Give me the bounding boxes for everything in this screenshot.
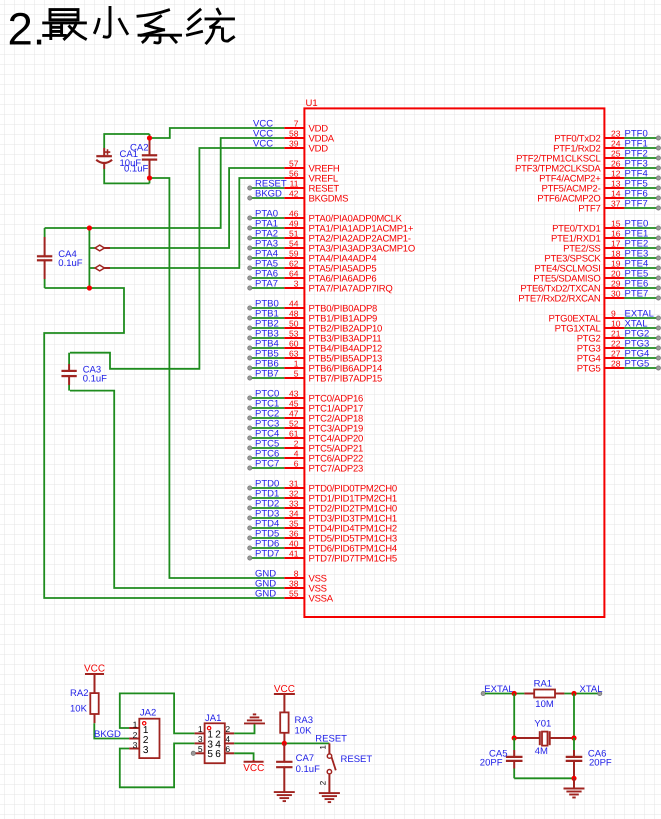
svg-text:28: 28	[611, 358, 621, 368]
svg-text:14: 14	[611, 188, 621, 198]
svg-text:VDD: VDD	[309, 144, 329, 155]
pin 27 PTG4 (right)	[577, 348, 661, 364]
pin 22 PTG3 (right)	[577, 338, 661, 354]
diamond tap VREFH	[95, 245, 110, 251]
svg-text:11: 11	[290, 178, 299, 188]
pin 51 PTA2/PIA2ADP2ACMP1- (left)	[248, 228, 411, 244]
svg-text:54: 54	[289, 238, 299, 248]
pin 2 JA1	[225, 724, 234, 734]
svg-text:23: 23	[611, 128, 621, 138]
power VCC symbol above RA3	[274, 684, 295, 712]
svg-text:XTAL: XTAL	[580, 684, 603, 695]
svg-text:CA2: CA2	[130, 143, 148, 154]
svg-text:0.1uF: 0.1uF	[124, 163, 148, 174]
pin 59 PTA4/PIA4ADP4 (left)	[248, 248, 377, 264]
capacitor CA6 20PF	[566, 738, 612, 778]
pin 14 PTF6/ACMP2O (right)	[537, 188, 660, 204]
junction node at CA4 bottom	[87, 285, 92, 290]
switch RESET push-button	[318, 743, 372, 793]
connector JA1 body	[205, 713, 225, 763]
wire EXTAL to RA1	[485, 693, 524, 695]
pin 3 JA2	[129, 740, 139, 750]
connector JA2 body	[139, 708, 159, 759]
svg-text:6: 6	[294, 458, 299, 468]
svg-text:43: 43	[289, 388, 299, 398]
svg-text:2.: 2.	[8, 4, 46, 55]
pin 54 PTA3/PIA3ADP3ACMP1O (left)	[248, 238, 415, 254]
pin 23 PTF0/TxD2 (right)	[554, 128, 660, 144]
svg-text:Y01: Y01	[534, 718, 551, 729]
svg-text:PTG5: PTG5	[577, 364, 601, 375]
svg-text:60: 60	[289, 338, 299, 348]
junction node Y01 left	[512, 735, 517, 740]
pin 44 PTB0/PIB0ADP8 (left)	[248, 298, 377, 314]
wire JA2 pin1 to JA1 pin1	[120, 693, 195, 733]
pin 57 VREFH (left)	[284, 158, 340, 174]
pin 1 JA2	[129, 719, 139, 729]
svg-text:10K: 10K	[70, 703, 88, 714]
capacitor CA1 electrolytic 10uF	[96, 148, 141, 169]
svg-text:2: 2	[133, 730, 138, 740]
pin 9 PTG0EXTAL (right)	[549, 308, 661, 324]
svg-text:34: 34	[289, 508, 299, 518]
svg-text:10: 10	[611, 318, 621, 328]
svg-text:30: 30	[611, 288, 621, 298]
junction node XTAL rail	[571, 691, 576, 696]
svg-text:63: 63	[289, 348, 299, 358]
pin 38 VSS (left)	[255, 578, 327, 594]
power VCC symbol above RA2	[84, 663, 105, 693]
pin 24 PTF1/RxD2 (right)	[553, 138, 660, 154]
svg-text:39: 39	[289, 138, 299, 148]
svg-text:45: 45	[289, 398, 299, 408]
svg-text:56: 56	[289, 168, 299, 178]
svg-text:BKGDMS: BKGDMS	[309, 194, 349, 205]
wire VREF tap vertical	[89, 228, 95, 288]
wire JA2 pin3 to JA1 pin3	[120, 743, 195, 787]
wire RA2 to JA2 pin2 BKGD	[94, 723, 129, 738]
svg-text:VCC: VCC	[243, 763, 264, 774]
svg-text:5: 5	[207, 749, 213, 760]
svg-text:6: 6	[215, 749, 221, 760]
svg-text:51: 51	[289, 228, 299, 238]
svg-text:2: 2	[318, 780, 327, 785]
junction node EXTAL rail	[512, 691, 517, 696]
svg-text:4M: 4M	[535, 746, 548, 757]
svg-text:PTD7/PID7TPM1CH5: PTD7/PID7TPM1CH5	[309, 554, 397, 565]
svg-text:8: 8	[294, 568, 299, 578]
pin 58 VDDA (left)	[253, 128, 335, 144]
svg-text:JA1: JA1	[205, 713, 221, 724]
svg-text:27: 27	[611, 348, 621, 358]
pin 17 PTE2/SS (right)	[563, 238, 660, 254]
wire CA4 bottom to VSSA pin55	[44, 288, 284, 598]
svg-text:16: 16	[611, 228, 621, 238]
op-amp U1 microcontroller body	[304, 108, 604, 617]
pin 42 BKGDMS (left)	[248, 188, 348, 204]
pin 12 PTF4/ACMP2+ (right)	[539, 168, 660, 184]
wire CA4 bottom rail	[45, 287, 90, 289]
svg-text:1: 1	[318, 745, 327, 750]
svg-text:0.1uF: 0.1uF	[83, 374, 107, 385]
svg-text:U1: U1	[306, 98, 318, 109]
junction node at CA4 top	[87, 225, 92, 230]
svg-text:37: 37	[611, 198, 621, 208]
node RESET label	[315, 733, 347, 744]
wire crystal bottom rail	[514, 777, 574, 779]
svg-text:PTF7: PTF7	[578, 204, 600, 215]
svg-text:40: 40	[289, 538, 299, 548]
svg-text:15: 15	[611, 218, 621, 228]
svg-text:64: 64	[289, 268, 299, 278]
ground symbol crystal	[564, 778, 585, 797]
pin 4 JA1	[225, 734, 234, 744]
svg-text:7: 7	[294, 118, 299, 128]
svg-text:21: 21	[611, 328, 621, 338]
svg-text:50: 50	[289, 318, 299, 328]
wire VCC pin58 to CA4 top node	[90, 138, 284, 228]
svg-text:10K: 10K	[295, 725, 313, 736]
U1 reference label	[306, 98, 318, 109]
ground symbol above JA1 pin2 (inverted)	[244, 714, 265, 723]
pin 40 PTD6/PID6TPM1CH4 (left)	[248, 538, 397, 554]
wire JA1 pin2 to ground	[234, 723, 254, 733]
resistor RA2 10K	[70, 688, 99, 723]
svg-text:10M: 10M	[535, 699, 554, 710]
pin 61 PTC4/ADP20 (left)	[248, 428, 363, 444]
svg-text:VCC: VCC	[84, 663, 105, 674]
junction node crystal ground	[571, 776, 576, 781]
pin 41 PTD7/PID7TPM1CH5 (left)	[248, 548, 397, 564]
power VCC symbol below JA1 pin6	[243, 760, 264, 774]
pin 5 PTB7/PIB7ADP15 (left)	[248, 368, 382, 384]
pin 3 JA1	[195, 734, 205, 744]
wire GND node CA1/CA2 bottom to VSS pin8	[151, 178, 284, 578]
pin 45 PTC1/ADP17 (left)	[248, 398, 363, 414]
svg-text:44: 44	[289, 298, 299, 308]
svg-text:35: 35	[289, 518, 299, 528]
svg-text:4: 4	[294, 448, 299, 458]
pin 50 PTB2/PIB2ADP10 (left)	[248, 318, 382, 334]
wire CA1/CA2 parallel loop	[104, 134, 149, 183]
svg-text:JA2: JA2	[140, 708, 156, 719]
pin 5 JA1 unconnected	[191, 744, 204, 756]
pin 49 PTA1/PIA1ADP1ACMP1+ (left)	[248, 218, 414, 234]
pin 11 RESET (left)	[248, 178, 340, 194]
pin 60 PTB4/PIB4ADP12 (left)	[248, 338, 382, 354]
svg-text:36: 36	[289, 528, 299, 538]
pin 36 PTD5/PID5TPM1CH3 (left)	[248, 528, 397, 544]
pin 55 VSSA (left)	[255, 588, 334, 604]
capacitor CA4 0.1uF	[37, 228, 83, 288]
wire CA4 top rail	[45, 227, 90, 229]
capacitor CA5 20PF	[480, 738, 523, 778]
svg-text:18: 18	[611, 248, 621, 258]
pin 35 PTD4/PID4TPM1CH2 (left)	[248, 518, 397, 534]
svg-text:6: 6	[225, 744, 230, 754]
wire CA3 bottom to VSS pin38	[70, 391, 284, 588]
svg-text:PTC7/ADP23: PTC7/ADP23	[309, 464, 364, 475]
svg-text:5: 5	[294, 368, 299, 378]
pin 39 VDD (left)	[253, 138, 328, 154]
svg-text:62: 62	[289, 258, 299, 268]
node XTAL terminal	[580, 684, 603, 696]
svg-text:58: 58	[289, 128, 299, 138]
svg-text:59: 59	[289, 248, 299, 258]
svg-text:0.1uF: 0.1uF	[296, 764, 320, 775]
svg-text:25: 25	[611, 148, 621, 158]
capacitor CA7 0.1uF	[276, 743, 320, 792]
pin 2 JA2	[129, 730, 139, 740]
node EXTAL terminal	[481, 684, 514, 696]
svg-text:2: 2	[225, 724, 230, 734]
pin 2 PTC5/ADP21 (left)	[248, 438, 363, 454]
svg-text:52: 52	[289, 418, 299, 428]
pin 32 PTD1/PID1TPM2CH1 (left)	[248, 488, 397, 504]
svg-text:9: 9	[611, 308, 616, 318]
svg-text:55: 55	[289, 588, 299, 598]
pin 21 PTG2 (right)	[577, 328, 661, 344]
capacitor CA3 0.1uF	[61, 353, 107, 391]
resistor RA1 10M	[524, 678, 564, 710]
svg-text:RA1: RA1	[534, 678, 552, 689]
pin 46 PTA0/PIA0ADP0MCLK (left)	[248, 208, 403, 224]
pin 6 PTC7/ADP23 (left)	[248, 458, 363, 474]
resistor RA3 10K	[280, 712, 313, 743]
pin 30 PTE7/RxD2/RXCAN (right)	[518, 288, 660, 304]
svg-text:46: 46	[289, 208, 299, 218]
pin 31 PTD0/PID0TPM2CH0 (left)	[248, 478, 397, 494]
svg-text:3: 3	[143, 745, 149, 756]
pin 28 PTG5 (right)	[577, 358, 661, 374]
crystal Y01 4M	[514, 718, 574, 757]
pin 18 PTE3/SPSCK (right)	[544, 248, 660, 264]
svg-text:PTE7/RxD2/RXCAN: PTE7/RxD2/RXCAN	[518, 294, 601, 305]
junction node RESET at RA3	[282, 741, 287, 746]
junction node Y01 right	[571, 735, 576, 740]
svg-text:29: 29	[611, 278, 621, 288]
svg-text:VSSA: VSSA	[309, 594, 334, 605]
svg-text:RA2: RA2	[70, 688, 88, 699]
svg-text:RESET: RESET	[341, 754, 373, 765]
svg-text:48: 48	[289, 308, 299, 318]
pin 47 PTC2/ADP18 (left)	[248, 408, 363, 424]
pin 6 JA1	[225, 744, 234, 754]
svg-text:31: 31	[289, 478, 299, 488]
pin 63 PTB5/PIB5ADP13 (left)	[248, 348, 382, 364]
junction node VCC at CA2 top	[147, 135, 152, 140]
ground symbol below switch	[319, 793, 340, 802]
pin 8 VSS (left)	[255, 568, 327, 584]
svg-text:41: 41	[289, 548, 299, 558]
svg-text:PTB7/PIB7ADP15: PTB7/PIB7ADP15	[309, 374, 383, 385]
pin 20 PTE5/SDAMISO (right)	[533, 268, 660, 284]
wire JA1 pin6 to VCC	[234, 753, 253, 760]
svg-text:24: 24	[611, 138, 621, 148]
pin 56 VREFL (left)	[284, 168, 338, 184]
svg-text:17: 17	[611, 238, 621, 248]
pin 34 PTD3/PID3TPM1CH1 (left)	[248, 508, 397, 524]
pin 26 PTF3/TPM2CLKSDA (right)	[515, 158, 660, 174]
capacitor CA2 0.1uF	[124, 138, 157, 178]
pin 1 JA1	[195, 724, 205, 734]
svg-text:20: 20	[611, 268, 621, 278]
svg-text:0.1uF: 0.1uF	[58, 258, 82, 269]
svg-text:26: 26	[611, 158, 621, 168]
pin 33 PTD2/PID2TPM1CH0 (left)	[248, 498, 397, 514]
pin 7 VDD (left)	[253, 118, 328, 134]
svg-text:61: 61	[289, 428, 299, 438]
svg-text:42: 42	[289, 188, 299, 198]
svg-text:3: 3	[133, 740, 138, 750]
pin 48 PTB1/PIB1ADP9 (left)	[248, 308, 377, 324]
pin 15 PTE0/TXD1 (right)	[552, 218, 660, 234]
junction node GND at CA2 bottom	[147, 175, 152, 180]
node BKGD label	[94, 729, 121, 740]
pin 3 PTA7/PIA7ADP7IRQ (left)	[248, 278, 393, 294]
pin 62 PTA5/PIA5ADP5 (left)	[248, 258, 377, 274]
pin 53 PTB3/PIB3ADP11 (left)	[248, 328, 382, 344]
svg-text:53: 53	[289, 328, 299, 338]
pin 43 PTC0/ADP16 (left)	[248, 388, 363, 404]
wire EXTAL vertical rail	[513, 694, 515, 739]
svg-text:32: 32	[289, 488, 299, 498]
svg-text:5: 5	[198, 744, 203, 754]
wire XTAL vertical rail	[573, 694, 575, 739]
pin 29 PTE6/TxD2/TXCAN (right)	[520, 278, 660, 294]
svg-text:BKGD: BKGD	[94, 729, 121, 740]
wire VREFH pin57 to diamond tap	[110, 168, 284, 248]
svg-text:57: 57	[289, 158, 299, 168]
svg-text:CA7: CA7	[296, 753, 314, 764]
svg-text:20PF: 20PF	[589, 757, 612, 768]
svg-text:1: 1	[198, 724, 203, 734]
svg-text:12: 12	[611, 168, 621, 178]
svg-text:47: 47	[289, 408, 299, 418]
svg-text:2: 2	[294, 438, 299, 448]
svg-text:13: 13	[611, 178, 621, 188]
pin 1 PTB6/PIB6ADP14 (left)	[248, 358, 382, 374]
svg-text:38: 38	[289, 578, 299, 588]
wire VCC pin7 to CA1/CA2 node	[151, 128, 284, 138]
svg-text:33: 33	[289, 498, 299, 508]
svg-text:3: 3	[198, 734, 203, 744]
svg-text:4: 4	[225, 734, 230, 744]
svg-text:PTA7/PIA7ADP7IRQ: PTA7/PIA7ADP7IRQ	[309, 284, 393, 295]
svg-text:49: 49	[289, 218, 299, 228]
svg-text:19: 19	[611, 258, 621, 268]
pin 19 PTE4/SCLMOSI (right)	[534, 258, 660, 274]
pin 64 PTA6/PIA6ADP6 (left)	[248, 268, 377, 284]
pin 10 PTG1XTAL (right)	[555, 318, 661, 334]
pin 13 PTF5/ACMP2- (right)	[541, 178, 660, 194]
svg-text:RA3: RA3	[295, 715, 313, 726]
pin 4 PTC6/ADP22 (left)	[248, 448, 363, 464]
svg-text:22: 22	[611, 338, 621, 348]
pin 37 PTF7 (right)	[578, 198, 660, 214]
diamond tap VREFL	[95, 265, 110, 271]
wire RESET net JA1 pin4 to switch	[234, 742, 329, 744]
ground symbol below CA7	[274, 792, 295, 801]
svg-text:1: 1	[133, 719, 138, 729]
svg-text:1: 1	[294, 358, 299, 368]
wire RA1 to XTAL	[564, 693, 598, 695]
wire VREFL pin56 to diamond tap	[110, 178, 284, 268]
svg-text:20PF: 20PF	[480, 757, 503, 768]
svg-text:3: 3	[294, 278, 299, 288]
pin 16 PTE1/RXD1 (right)	[551, 228, 661, 244]
svg-text:RESET: RESET	[315, 733, 347, 744]
pin 25 PTF2/TPM1CLKSCL (right)	[516, 148, 660, 164]
pin 52 PTC3/ADP19 (left)	[248, 418, 363, 434]
wire VCC pin39 to CA3 top node	[70, 148, 284, 369]
